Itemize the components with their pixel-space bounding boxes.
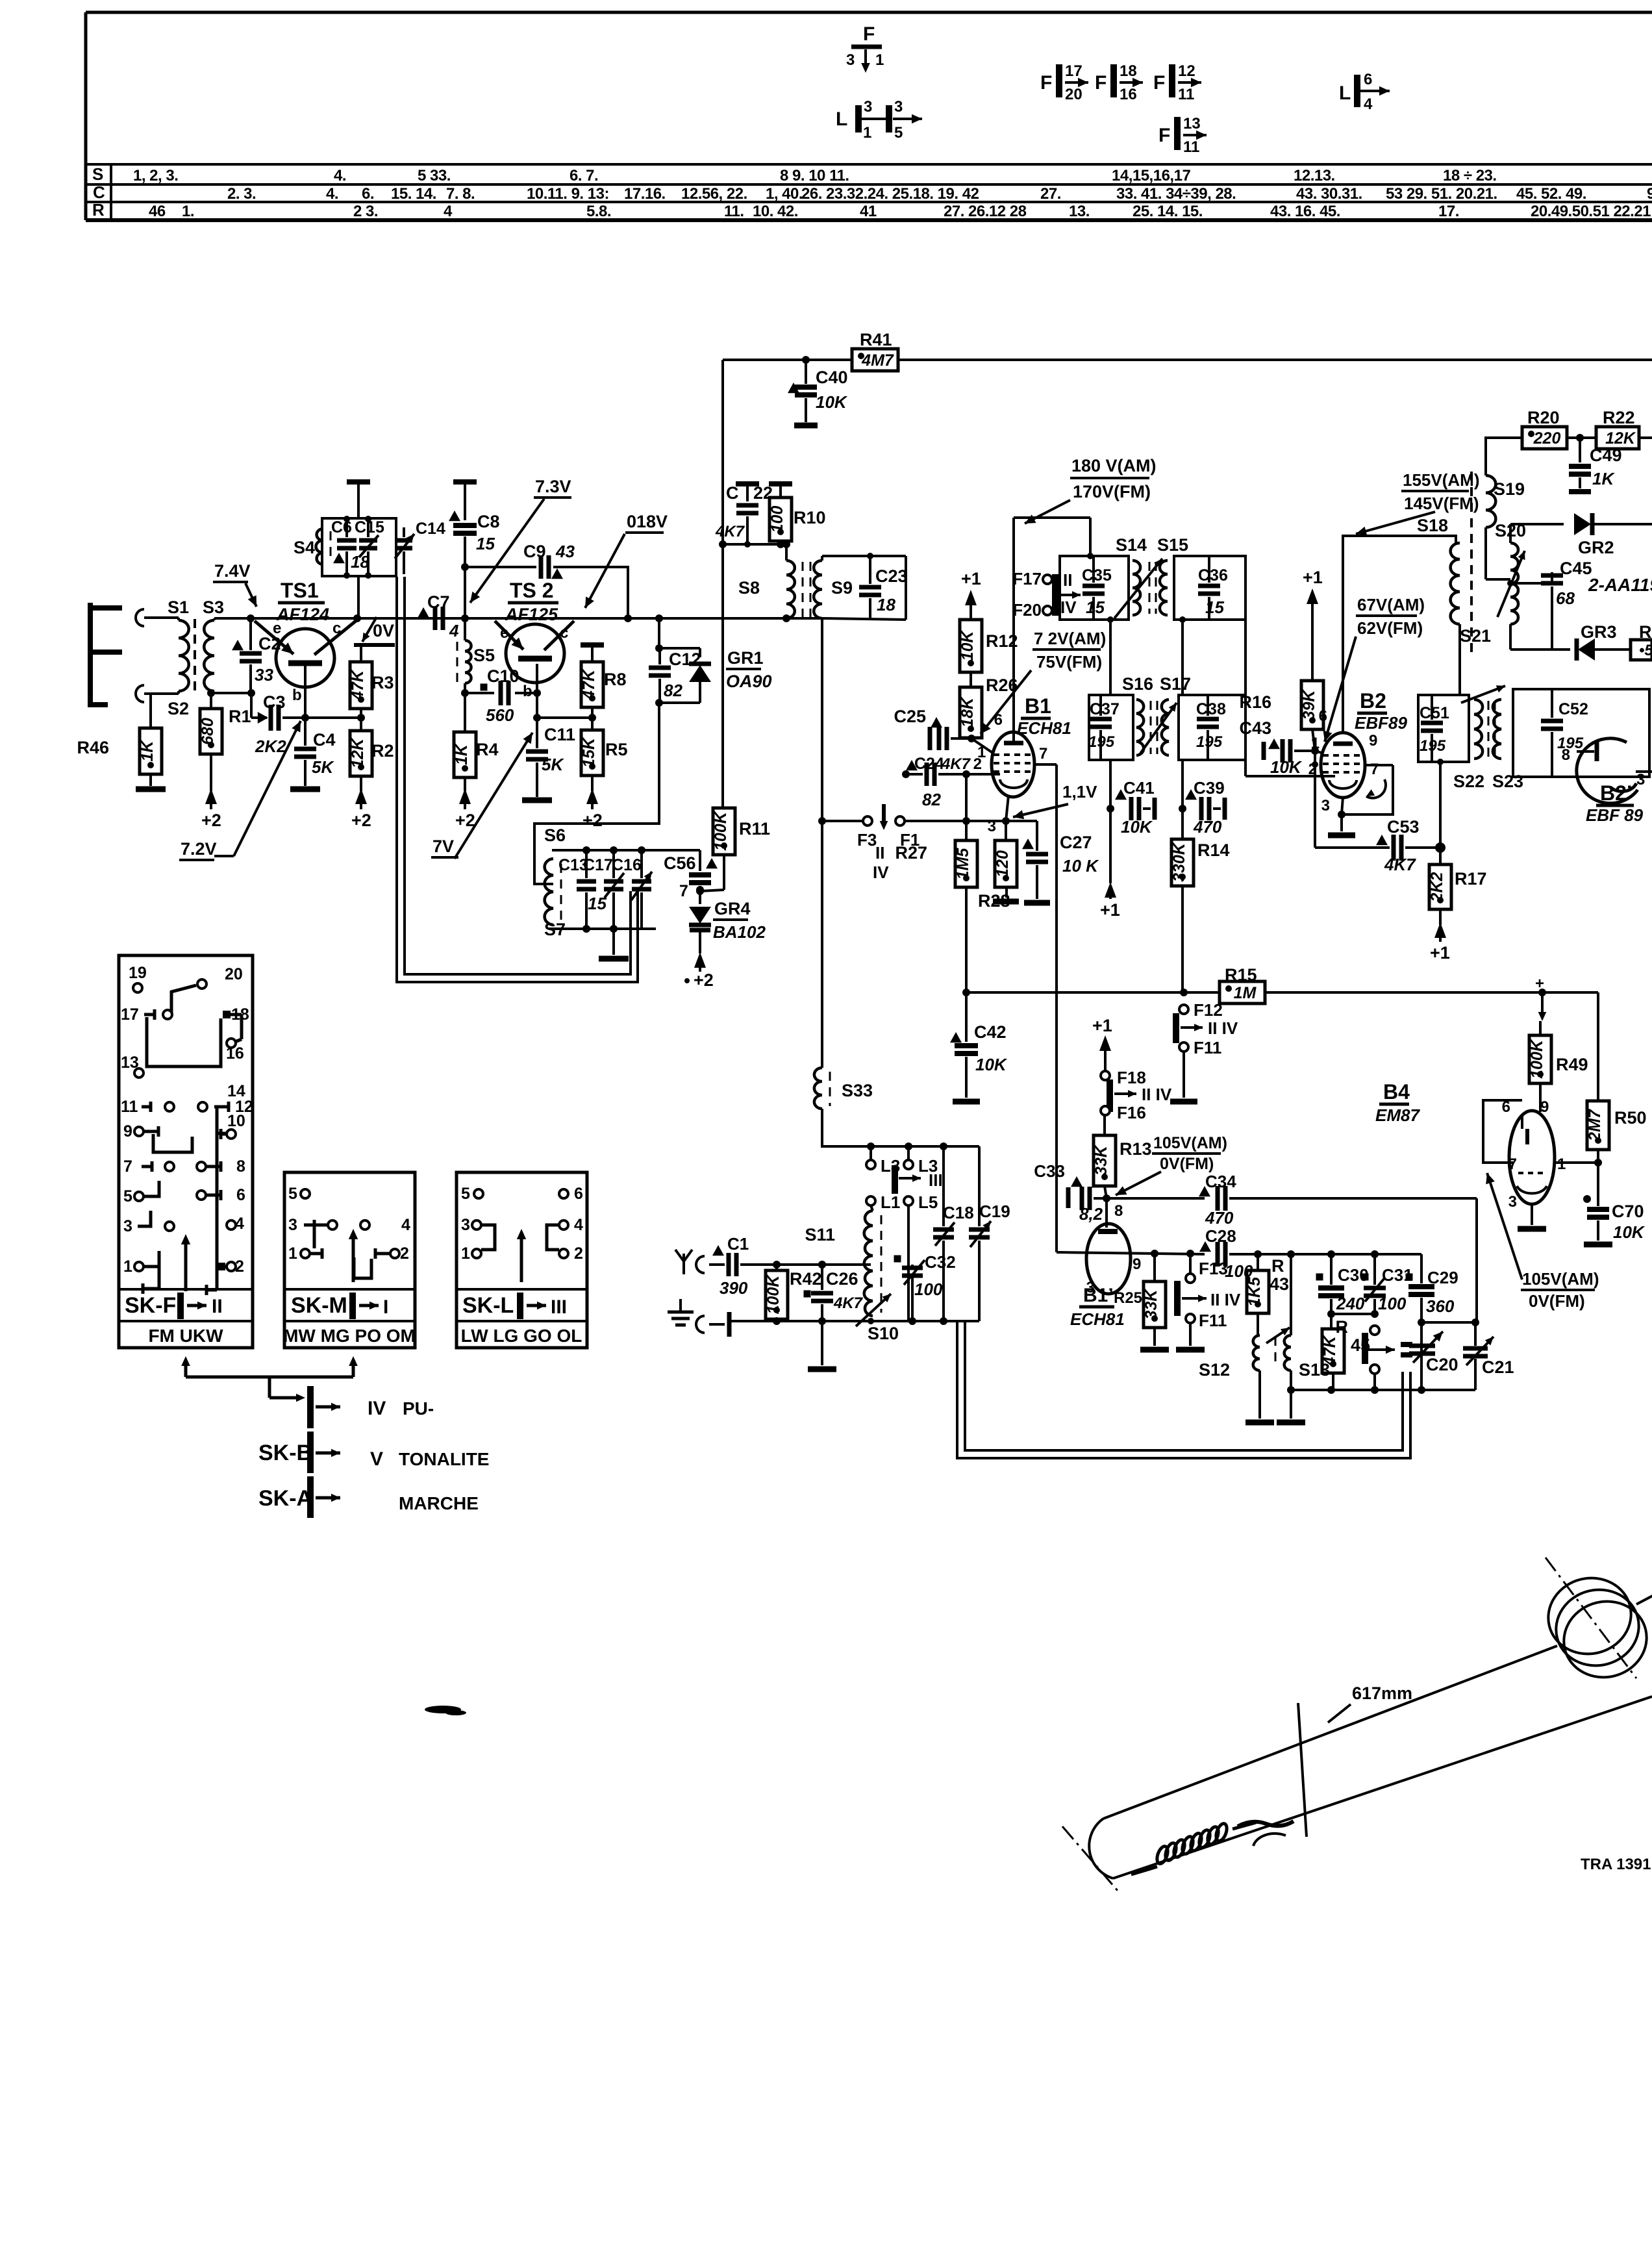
svg-text:3: 3 (461, 1216, 470, 1234)
S13 to rail (1290, 1370, 1292, 1390)
svg-text:10K: 10K (1613, 1222, 1646, 1242)
svg-text:41: 41 (860, 203, 877, 220)
coil S22 (1474, 700, 1483, 759)
wire dipole to S1 (144, 616, 179, 619)
trimmer C56a (631, 850, 652, 929)
SK-F name row (125, 1293, 223, 1319)
svg-text:L: L (836, 108, 847, 130)
svg-text:C52: C52 (1558, 700, 1588, 718)
svg-text:F3: F3 (857, 830, 877, 850)
SK-F pin 7 (123, 1157, 174, 1176)
svg-text:4M7: 4M7 (861, 351, 894, 370)
svg-text:9: 9 (1647, 185, 1652, 203)
B1' pin9 line (1057, 1252, 1143, 1254)
tube B1 ECH81 (992, 732, 1034, 797)
svg-text:F: F (1153, 72, 1165, 94)
SK-F pin 8 (197, 1157, 245, 1176)
SK-F pin 18 (223, 1005, 249, 1024)
svg-text:III: III (929, 1170, 943, 1190)
coil S16 (1136, 700, 1144, 755)
SK-F pin 3 (123, 1211, 174, 1235)
svg-text:3: 3 (123, 1217, 132, 1235)
svg-text:19: 19 (129, 964, 147, 982)
svg-text:C20: C20 (1426, 1355, 1458, 1374)
svg-text:F: F (863, 23, 875, 45)
svg-text:c: c (332, 620, 341, 637)
B2 pin1 wire (1315, 751, 1323, 753)
core S22-S23 (1488, 701, 1495, 757)
ground under R46 (136, 787, 166, 792)
arrow 155V to screen line (1356, 512, 1435, 536)
C29 top stem (1420, 1254, 1423, 1283)
svg-text:5 33.: 5 33. (418, 167, 451, 184)
svg-text:1.: 1. (182, 203, 194, 220)
capacitor C38 195 (1196, 695, 1226, 760)
svg-text:S12: S12 (1199, 1360, 1230, 1380)
core S16-S17 (1151, 701, 1157, 754)
wire R20 to S19 (1486, 438, 1522, 475)
SK-F wiper arrow (181, 1234, 190, 1291)
svg-text:3: 3 (1508, 1193, 1517, 1211)
svg-text:B1: B1 (1025, 694, 1051, 718)
svg-text:b: b (523, 683, 532, 700)
resistor R28 120 (978, 821, 1017, 911)
svg-text:15: 15 (1205, 598, 1224, 617)
svg-text:7.2V: 7.2V (181, 839, 217, 859)
svg-text:S5: S5 (473, 646, 495, 665)
AM antenna symbol (675, 1250, 725, 1274)
svg-text:II: II (1063, 570, 1072, 590)
SK-F pin 1 (123, 1251, 159, 1294)
AM ground symbol (668, 1299, 729, 1337)
svg-text:7: 7 (1039, 745, 1047, 763)
terminal L3 b (904, 1146, 938, 1176)
capacitor C28 100 (1199, 1226, 1258, 1281)
SK-F band row (148, 1326, 223, 1346)
ground under R28 (993, 899, 1019, 905)
svg-text:C18: C18 (943, 1203, 974, 1222)
S9-C23 box (822, 553, 906, 620)
label 67V 62V (1356, 595, 1425, 638)
arrow 7.4V to node (245, 583, 257, 607)
svg-text:II IV: II IV (1210, 1290, 1241, 1309)
svg-text:4K7: 4K7 (715, 523, 745, 540)
svg-text:SK-B: SK-B (258, 1441, 312, 1465)
svg-text:5: 5 (123, 1187, 132, 1205)
svg-text:018V: 018V (627, 512, 668, 531)
svg-text:6. 7.: 6. 7. (569, 167, 598, 184)
svg-text:7: 7 (679, 882, 688, 900)
svg-text:100K: 100K (1528, 1039, 1546, 1079)
svg-text:13.: 13. (1069, 203, 1090, 220)
svg-text:17.: 17. (1438, 203, 1459, 220)
ground under R25 (1140, 1347, 1169, 1353)
svg-text:100: 100 (1378, 1294, 1407, 1313)
ground under F11 (1170, 1099, 1197, 1105)
svg-text:10K: 10K (975, 1055, 1008, 1074)
coil S33 (814, 1068, 830, 1109)
arrow into R49 (1535, 975, 1546, 1021)
B1 internals (994, 743, 1035, 788)
svg-text:IV: IV (1060, 598, 1077, 617)
svg-text:e: e (500, 624, 508, 642)
resistor R3 47K (349, 645, 394, 718)
capacitor C3 2K2 (255, 692, 305, 756)
arrow 1.1V to pin3 (1013, 804, 1068, 819)
svg-text:R14: R14 (1197, 840, 1230, 860)
svg-text:1,1V: 1,1V (1062, 782, 1097, 801)
B2' labels (1586, 781, 1644, 825)
svg-text:2: 2 (973, 755, 982, 773)
capacitor C36 15 (1198, 556, 1228, 620)
svg-text:33: 33 (255, 665, 273, 685)
B1' pin9 label (1133, 1255, 1141, 1273)
trimmer C18 (933, 1146, 974, 1321)
SK-F pin 9 (123, 1122, 158, 1141)
svg-text:4.: 4. (334, 167, 346, 184)
svg-text:+1: +1 (1092, 1016, 1112, 1035)
labels S20 S21 (1460, 521, 1526, 646)
coil S11 (864, 1205, 881, 1316)
svg-text:C11: C11 (544, 725, 575, 744)
svg-text:R: R (1336, 1317, 1349, 1337)
svg-text:GR2: GR2 (1578, 538, 1614, 557)
resistor R49 100K (1528, 1021, 1588, 1112)
svg-text:8: 8 (1114, 1202, 1123, 1220)
svg-text:C38: C38 (1196, 700, 1226, 718)
wire C2 bottom to base line (251, 693, 267, 718)
svg-text:EM87: EM87 (1375, 1105, 1420, 1125)
SK-B wafer (258, 1432, 489, 1473)
svg-text:1K: 1K (1592, 469, 1615, 488)
svg-text:II IV: II IV (1208, 1018, 1238, 1038)
resistor R42 100K (764, 1261, 822, 1321)
svg-text:27.: 27. (1040, 185, 1061, 203)
svg-text:R49: R49 (1556, 1055, 1588, 1074)
svg-text:680: 680 (199, 718, 217, 745)
svg-text:C56: C56 (664, 853, 696, 873)
ground under C40 (794, 423, 818, 429)
svg-text:8: 8 (236, 1157, 245, 1176)
B1 pin6 lead (994, 711, 1014, 743)
svg-text:FM UKW: FM UKW (148, 1326, 223, 1346)
label S1 (168, 598, 189, 617)
diode GR1 OA90 (689, 648, 711, 703)
svg-text:AF124: AF124 (276, 605, 329, 624)
wire dipole to R46 node (144, 694, 179, 728)
table row label R (92, 200, 105, 220)
resistor R44 47K (1321, 1314, 1344, 1390)
AM band rail (1254, 1250, 1421, 1258)
rod axis dash-dot left (1062, 1826, 1118, 1891)
svg-text:18: 18 (1120, 62, 1137, 80)
svg-text:C1: C1 (727, 1234, 749, 1254)
svg-text:12K: 12K (1605, 429, 1636, 448)
svg-text:4.: 4. (326, 185, 338, 203)
svg-text:S22: S22 (1453, 772, 1484, 791)
wire S19 to S20 area (1486, 527, 1510, 579)
svg-text:1: 1 (863, 124, 871, 142)
svg-text:15K: 15K (580, 737, 598, 768)
svg-text:EBF 89: EBF 89 (1586, 805, 1644, 825)
arrow 72V to grid node (981, 670, 1031, 734)
svg-text:1M: 1M (1234, 984, 1257, 1002)
svg-text:S11: S11 (805, 1225, 835, 1244)
coil S18 (1451, 543, 1460, 624)
SK-M name row (291, 1293, 388, 1319)
svg-text:15: 15 (1086, 598, 1105, 617)
label 1.1V (1062, 782, 1097, 801)
svg-text:10K: 10K (1121, 817, 1153, 837)
svg-text:R1: R1 (229, 707, 251, 726)
svg-text:2K2: 2K2 (1428, 872, 1446, 902)
trimmer C31 100 (1364, 1254, 1413, 1314)
svg-text:7: 7 (1370, 761, 1379, 778)
core S1-S3 (194, 619, 196, 694)
SK-M pin 3 (288, 1216, 337, 1234)
tuner top rail (822, 1109, 979, 1150)
svg-text:1K5: 1K5 (1245, 1276, 1264, 1307)
tuning arrow S11 (856, 1294, 891, 1326)
svg-text:C35: C35 (1082, 566, 1112, 585)
svg-text:4: 4 (401, 1216, 410, 1234)
capacitor C43 10K (1239, 718, 1318, 777)
SK-F pin 20 (225, 965, 243, 983)
svg-text:2-AA119: 2-AA119 (1588, 575, 1652, 595)
svg-text:7: 7 (123, 1157, 132, 1176)
svg-text:C41: C41 (1123, 778, 1155, 798)
capacitor C11 5K (526, 718, 575, 797)
switch III contact C20 (1401, 1339, 1412, 1360)
switch F12 F11 (1176, 1000, 1238, 1098)
SK-L pin 4 (547, 1216, 583, 1250)
svg-text:C21: C21 (1482, 1357, 1514, 1377)
svg-text:C43: C43 (1239, 718, 1271, 738)
resistor R14 330K (1170, 839, 1230, 992)
coil S15 (1160, 561, 1168, 615)
svg-text:470: 470 (1205, 1208, 1234, 1228)
svg-text:F12: F12 (1194, 1000, 1223, 1020)
svg-text:17: 17 (1065, 62, 1083, 80)
svg-text:+2: +2 (351, 811, 371, 830)
svg-text:43: 43 (1270, 1274, 1289, 1294)
svg-text:4K7: 4K7 (1384, 855, 1416, 874)
trimmer C16 (604, 850, 642, 929)
svg-text:S3: S3 (203, 598, 224, 617)
B2 labels (1355, 689, 1407, 733)
svg-text:S15: S15 (1157, 535, 1188, 555)
resistor R43 1K5 (1245, 1254, 1289, 1335)
SK wafer IV bar (310, 1386, 434, 1428)
svg-text:15. 14.: 15. 14. (391, 185, 436, 203)
svg-text:120: 120 (994, 850, 1012, 877)
svg-text:14,15,16,17: 14,15,16,17 (1112, 167, 1190, 184)
labels S14 S15 (1116, 535, 1188, 555)
ground under C4 (290, 787, 320, 792)
B2 pin2 to C53 column (1314, 751, 1316, 848)
label TRA 1391 (1581, 1856, 1651, 1873)
svg-text:4: 4 (574, 1216, 583, 1234)
S6 tank bottom rail (549, 925, 656, 933)
SK-A wafer (258, 1476, 479, 1518)
capacitor C1 390 (712, 1234, 777, 1298)
switch F13 F11 (1177, 1257, 1241, 1346)
SK-F block frame (119, 955, 253, 1348)
svg-text:1: 1 (461, 1244, 470, 1263)
B2 screen supply (1343, 536, 1456, 733)
svg-text:II IV: II IV (1142, 1085, 1172, 1104)
supply arrow +2 under GR4 (684, 952, 714, 990)
SK-F pin 17 (121, 1005, 172, 1024)
coil S7 (545, 850, 561, 925)
svg-text:+2: +2 (455, 811, 475, 830)
SK-F bus 12-2 (206, 1107, 226, 1295)
svg-text:7.3V: 7.3V (535, 477, 571, 496)
C30-C31 rail (1327, 1310, 1379, 1318)
svg-text:S: S (92, 164, 103, 184)
svg-text:5.8.: 5.8. (586, 203, 611, 220)
SK-F top contact (161, 979, 206, 1015)
antenna coil loops (1540, 1569, 1652, 1686)
svg-text:ECH81: ECH81 (1017, 718, 1071, 738)
coil S3 (204, 618, 214, 691)
svg-text:43. 16. 45.: 43. 16. 45. (1270, 203, 1340, 220)
AGC line R15 (966, 965, 1598, 1003)
trimmer C19 (969, 1146, 1010, 1321)
arrow into SK-M bottom (349, 1356, 358, 1377)
svg-text:B2: B2 (1360, 689, 1386, 713)
svg-text:C51: C51 (1420, 704, 1449, 722)
arrow 180V to supply rail (1025, 500, 1070, 524)
svg-text:C23: C23 (875, 566, 908, 586)
svg-text:3: 3 (1086, 1279, 1095, 1296)
coil S23 (1493, 700, 1501, 759)
svg-text:C70: C70 (1612, 1202, 1644, 1221)
coil S13 (1284, 1254, 1291, 1370)
svg-text:1: 1 (875, 51, 884, 69)
L3 contact bars (895, 1165, 943, 1194)
resistor R4 1K (453, 693, 499, 791)
svg-text:S19: S19 (1494, 479, 1525, 499)
svg-text:BA102: BA102 (713, 922, 766, 942)
trimmer C20 (1409, 1331, 1458, 1374)
label 7V (431, 837, 458, 857)
svg-text:GR4: GR4 (714, 899, 751, 918)
svg-text:100K: 100K (764, 1274, 782, 1315)
SK-M wiper arrow (349, 1229, 358, 1282)
terminal L1 (866, 1192, 900, 1212)
svg-text:F20: F20 (1012, 600, 1042, 620)
switch F17 F20 (1012, 569, 1081, 620)
B4 shield box (1483, 1100, 1522, 1163)
resistor R17 2K2 (1428, 848, 1487, 925)
svg-text:S6: S6 (544, 826, 566, 845)
svg-text:C3: C3 (263, 692, 286, 712)
svg-text:5: 5 (461, 1185, 470, 1203)
svg-text:C14: C14 (416, 520, 445, 538)
antenna connector top (136, 609, 144, 626)
supply arrow +2 under R1 (201, 789, 221, 830)
svg-text:F17: F17 (1012, 569, 1042, 588)
C34 long vertical (1475, 1198, 1478, 1322)
switch R45 contact (1336, 1314, 1395, 1390)
capacitor C37 195 (1088, 695, 1120, 760)
ground under S13 rail (1277, 1390, 1305, 1422)
resistor R12 10K (958, 620, 1018, 672)
supply arrow +1 above R16 (1303, 568, 1323, 681)
SK-M block frame (284, 1172, 415, 1348)
wire table C row line (86, 183, 1652, 186)
label TS1 (276, 579, 329, 624)
terminal L3 a (866, 1146, 900, 1176)
trimmer C14 (395, 520, 445, 574)
svg-text:C26: C26 (826, 1269, 858, 1289)
link bar under blocks (186, 1377, 353, 1402)
svg-text:0V: 0V (373, 621, 394, 640)
svg-text:8,2: 8,2 (1079, 1204, 1103, 1224)
label TS2 (505, 579, 558, 624)
TS1 base wire (301, 664, 365, 722)
svg-text:F: F (1040, 72, 1052, 94)
svg-text:105V(AM): 105V(AM) (1522, 1269, 1599, 1289)
svg-text:R12: R12 (986, 631, 1018, 651)
capacitor C34 470 (1199, 1172, 1477, 1228)
arrow 7.2V to TS1 base (214, 721, 301, 856)
svg-text:5K: 5K (312, 757, 334, 777)
wire C1 line to S11 (777, 1263, 871, 1266)
svg-text:2: 2 (574, 1244, 583, 1263)
ground under tank (599, 929, 629, 959)
link S14 to S16 (1109, 620, 1112, 695)
ground under C26 (808, 1321, 836, 1369)
svg-text:10K: 10K (1270, 757, 1303, 777)
svg-text:5K: 5K (542, 755, 564, 774)
svg-text:+1: +1 (1303, 568, 1323, 587)
label 7.3V (534, 477, 571, 498)
switch F3 F1 (822, 804, 1037, 882)
C42b cap (0, 0, 1, 1)
svg-text:R10: R10 (794, 508, 826, 527)
svg-text:20.49.50.51 22.21: 20.49.50.51 22.21 (1531, 203, 1651, 220)
wire table bottom line (86, 218, 1652, 222)
svg-text:12.56, 22.: 12.56, 22. (681, 185, 747, 203)
capacitor C49 1K (1569, 438, 1622, 492)
svg-text:C27: C27 (1060, 833, 1092, 852)
transistor TS1 AF124 (255, 620, 356, 704)
svg-text:43: 43 (555, 542, 575, 561)
svg-text:C39: C39 (1194, 778, 1225, 798)
svg-text:6.: 6. (362, 185, 374, 203)
svg-text:10K: 10K (816, 392, 848, 412)
svg-text:MW MG PO OM: MW MG PO OM (283, 1326, 416, 1346)
svg-text:C9: C9 (523, 542, 546, 561)
svg-text:B2’: B2’ (1600, 781, 1633, 805)
svg-text:170V(FM): 170V(FM) (1073, 482, 1151, 501)
tube B2 EBF89 (1321, 733, 1365, 798)
svg-text:17: 17 (121, 1005, 139, 1024)
svg-text:45: 45 (1351, 1335, 1370, 1355)
link S15 to S17 (1244, 620, 1247, 776)
B4 cathode ground (1518, 1204, 1546, 1229)
vertical to S6 tank (534, 703, 659, 884)
header box frame (86, 12, 1652, 220)
svg-text:C49: C49 (1590, 446, 1622, 465)
capacitor C51 195 (1420, 695, 1449, 762)
svg-text:7V: 7V (432, 837, 454, 856)
B1' pin8 lead (1098, 1194, 1123, 1231)
trimmer C21 (1463, 1322, 1514, 1390)
svg-text:C33: C33 (1034, 1161, 1065, 1181)
